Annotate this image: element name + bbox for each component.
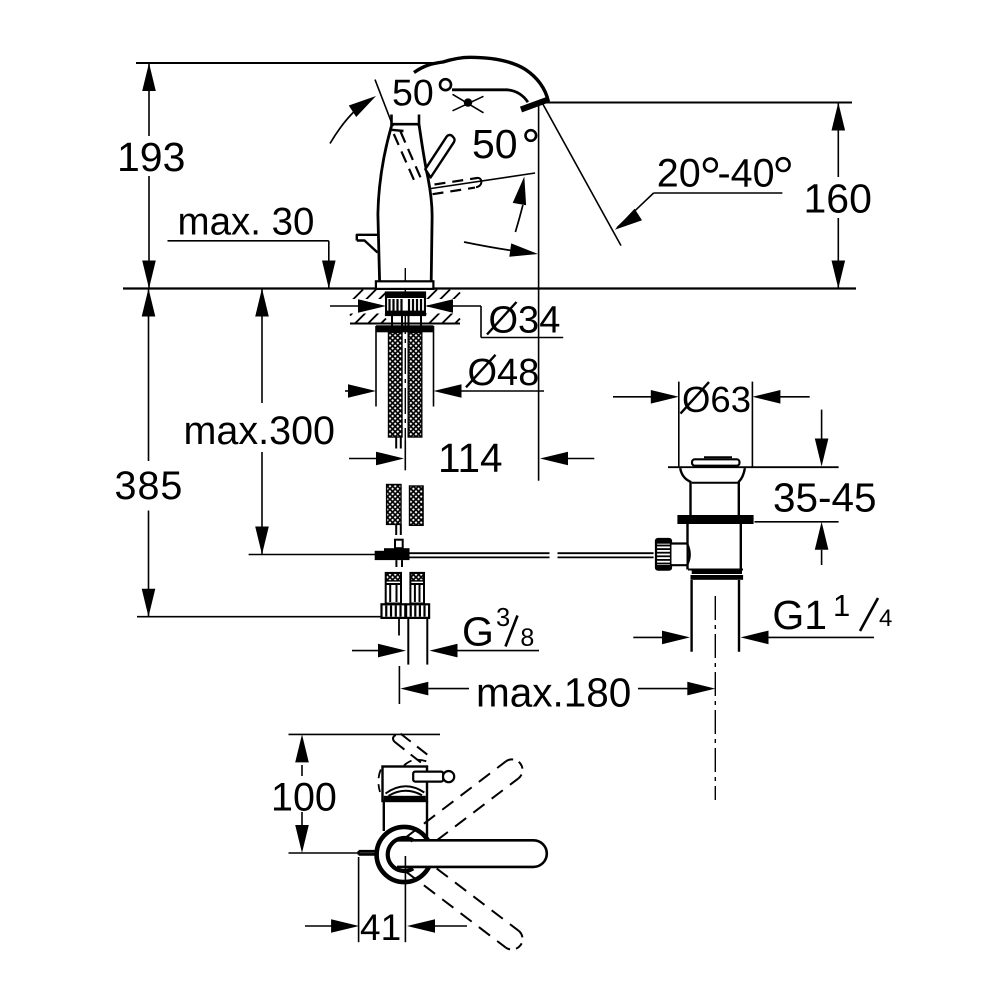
svg-text:100: 100: [271, 776, 337, 820]
svg-text:1: 1: [833, 588, 850, 623]
svg-text:G: G: [462, 609, 494, 655]
svg-text:max.300: max.300: [184, 409, 336, 453]
svg-text:41: 41: [360, 907, 401, 948]
svg-text:385: 385: [115, 464, 184, 508]
svg-text:50: 50: [392, 72, 434, 114]
svg-text:-40: -40: [718, 152, 775, 196]
svg-text:G1: G1: [772, 592, 827, 638]
svg-text:8: 8: [520, 624, 534, 652]
svg-text:4: 4: [879, 605, 892, 632]
svg-text:35-45: 35-45: [773, 475, 877, 521]
svg-text:193: 193: [117, 134, 185, 180]
svg-text:max.180: max.180: [476, 670, 631, 716]
svg-text:114: 114: [438, 435, 503, 481]
svg-text:20: 20: [657, 152, 701, 196]
svg-text:max. 30: max. 30: [178, 201, 315, 244]
svg-text:160: 160: [804, 176, 872, 222]
svg-text:3: 3: [496, 604, 510, 632]
svg-text:50: 50: [472, 121, 518, 167]
